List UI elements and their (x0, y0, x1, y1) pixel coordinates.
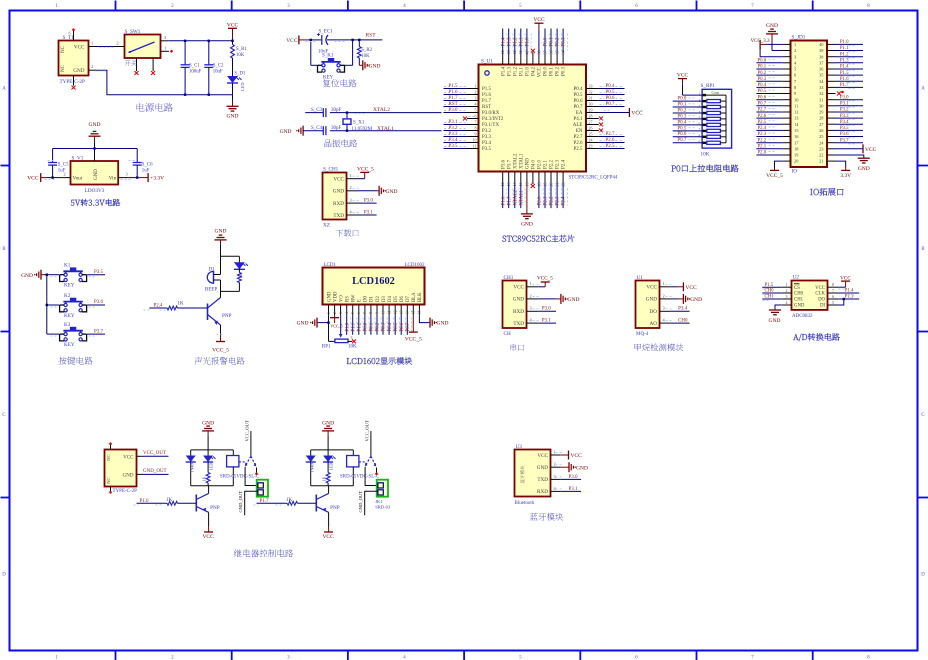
svg-text:P2.6: P2.6 (758, 114, 767, 119)
svg-text:P1.0: P1.0 (840, 40, 849, 45)
svg-text:1K: 1K (166, 498, 173, 503)
svg-text:10K: 10K (348, 345, 357, 350)
svg-text:P4.3/INT2: P4.3/INT2 (482, 117, 504, 122)
svg-text:P3.4: P3.4 (678, 307, 688, 312)
svg-text:P4.1: P4.1 (573, 117, 583, 122)
svg-text:P3.0: P3.0 (840, 95, 849, 100)
svg-text:P3.7: P3.7 (94, 329, 104, 334)
svg-text:C: C (2, 413, 5, 418)
svg-text:XTAL2: XTAL2 (373, 107, 390, 113)
svg-text:P0.3: P0.3 (758, 77, 767, 82)
svg-text:D5: D5 (394, 295, 399, 301)
svg-text:1N4007: 1N4007 (189, 460, 194, 473)
svg-text:S_K1: S_K1 (322, 54, 334, 59)
svg-text:GND: GND (280, 129, 292, 135)
svg-text:GND: GND (437, 321, 449, 327)
svg-text:GND: GND (690, 297, 702, 303)
svg-text:U2: U2 (793, 275, 800, 281)
svg-text:30: 30 (589, 101, 593, 106)
svg-text:P1.1: P1.1 (840, 46, 849, 51)
svg-text:8: 8 (699, 135, 701, 139)
svg-text:7: 7 (699, 129, 701, 133)
svg-text:GND: GND (215, 229, 227, 235)
svg-text:S_V1: S_V1 (72, 156, 84, 162)
svg-text:VCC_OUT: VCC_OUT (365, 420, 370, 441)
svg-text:3: 3 (287, 4, 290, 9)
svg-text:8: 8 (867, 4, 870, 9)
svg-text:LCD1: LCD1 (324, 263, 337, 268)
svg-text:XTAL1: XTAL1 (377, 126, 394, 132)
svg-text:P0.5: P0.5 (573, 93, 583, 98)
svg-text:VCC: VCC (646, 285, 657, 291)
svg-text:26: 26 (589, 125, 593, 130)
svg-text:P1.5: P1.5 (482, 87, 492, 92)
svg-text:P1.7: P1.7 (507, 196, 512, 206)
svg-text:12: 12 (794, 110, 798, 115)
svg-text:RW: RW (352, 294, 357, 302)
svg-text:1K: 1K (238, 273, 243, 278)
svg-text:2: 2 (117, 40, 119, 45)
svg-text:10K: 10K (361, 54, 370, 59)
svg-text:6: 6 (475, 113, 477, 118)
svg-text:P2.0: P2.0 (538, 160, 543, 170)
svg-text:3: 3 (351, 335, 353, 340)
svg-text:2: 2 (699, 99, 701, 103)
svg-text:2: 2 (350, 185, 352, 190)
svg-text:MQ-4: MQ-4 (636, 332, 649, 337)
svg-text:GND: GND (794, 304, 805, 309)
svg-text:VCC: VCC (685, 285, 697, 291)
svg-text:GND: GND (297, 321, 309, 327)
svg-text:5: 5 (475, 107, 477, 112)
svg-text:VCC: VCC (631, 111, 643, 117)
svg-text:GND: GND (386, 189, 398, 195)
svg-text:P2.5: P2.5 (573, 147, 583, 152)
svg-text:VCC: VCC (74, 45, 85, 51)
svg-text:EN: EN (576, 129, 583, 134)
svg-text:2: 2 (91, 64, 93, 69)
svg-text:2: 2 (171, 4, 174, 9)
svg-text:PNP: PNP (210, 505, 220, 511)
svg-text:U1: U1 (637, 275, 644, 281)
svg-text:7: 7 (363, 312, 367, 314)
svg-text:D3: D3 (382, 296, 387, 302)
svg-text:P2.3: P2.3 (556, 159, 561, 169)
svg-text:VCC: VCC (202, 534, 214, 540)
svg-text:GND_OUT: GND_OUT (358, 491, 363, 513)
svg-text:S_SW1: S_SW1 (125, 29, 141, 35)
svg-text:10: 10 (473, 137, 477, 142)
svg-text:VCC_5: VCC_5 (405, 336, 422, 342)
svg-text:3: 3 (475, 95, 477, 100)
svg-text:CH1: CH1 (504, 275, 514, 281)
svg-text:+3.3V: +3.3V (150, 176, 164, 182)
svg-text:S_C6: S_C6 (142, 163, 153, 168)
svg-text:P3.1: P3.1 (364, 210, 374, 215)
svg-text:P2.0: P2.0 (758, 151, 767, 156)
svg-text:S_R2: S_R2 (361, 48, 372, 53)
svg-text:P2.1: P2.1 (544, 196, 549, 206)
svg-text:10K: 10K (236, 53, 245, 58)
svg-text:P1.5: P1.5 (765, 283, 774, 288)
svg-text:1K: 1K (178, 302, 185, 307)
svg-text:3: 3 (530, 306, 532, 311)
svg-text:B: B (2, 247, 5, 252)
svg-text:VCC: VCC (27, 176, 39, 182)
svg-text:P1.2: P1.2 (358, 322, 363, 331)
svg-text:D7: D7 (406, 296, 411, 302)
svg-text:29: 29 (589, 107, 593, 112)
svg-text:GND: GND (646, 297, 657, 303)
svg-text:6: 6 (635, 4, 638, 9)
svg-text:P2.7: P2.7 (758, 108, 767, 113)
svg-text:RP1: RP1 (322, 345, 331, 350)
svg-text:Vout: Vout (73, 176, 83, 182)
svg-text:P1.2: P1.2 (840, 52, 849, 57)
svg-text:28: 28 (589, 113, 593, 118)
svg-text:3: 3 (699, 105, 701, 109)
svg-text:P0.4: P0.4 (573, 87, 583, 92)
svg-text:XTAL1: XTAL1 (519, 190, 524, 206)
svg-text:P1.5: P1.5 (449, 84, 459, 89)
svg-text:VCC_OUT: VCC_OUT (143, 451, 166, 456)
svg-text:P3.5: P3.5 (449, 144, 459, 149)
svg-text:S_U1: S_U1 (481, 59, 493, 65)
svg-text:P0.7: P0.7 (758, 102, 767, 107)
svg-text:1: 1 (794, 42, 796, 47)
svg-text:IO: IO (792, 169, 798, 175)
svg-text:3: 3 (164, 35, 166, 40)
svg-text:S_C4: S_C4 (311, 126, 323, 131)
svg-text:VCC_5: VCC_5 (212, 348, 229, 354)
svg-text:GND: GND (576, 465, 588, 471)
svg-text:P0.1: P0.1 (550, 37, 555, 47)
svg-text:2: 2 (171, 656, 174, 660)
svg-text:1: 1 (327, 312, 331, 314)
svg-text:VCC_5: VCC_5 (357, 167, 374, 173)
svg-text:P0.6: P0.6 (573, 99, 583, 104)
svg-text:2: 2 (333, 312, 337, 314)
svg-text:SRD-05VDC-SL-C: SRD-05VDC-SL-C (340, 474, 379, 479)
svg-text:12: 12 (393, 310, 397, 314)
svg-text:P2.2: P2.2 (550, 159, 555, 169)
svg-text:P2.1: P2.1 (758, 145, 767, 150)
svg-text:P1.4: P1.4 (840, 65, 849, 70)
svg-text:D1: D1 (209, 267, 216, 272)
svg-text:GND_OUT: GND_OUT (238, 491, 243, 513)
svg-text:3: 3 (554, 474, 556, 479)
svg-text:P0.2: P0.2 (556, 37, 561, 47)
svg-text:Vin: Vin (109, 176, 117, 182)
svg-text:P2.3: P2.3 (758, 132, 767, 137)
svg-text:VCC: VCC (227, 23, 239, 29)
svg-text:P1.6: P1.6 (501, 196, 506, 206)
svg-text:100uF: 100uF (189, 69, 202, 74)
svg-text:15: 15 (412, 310, 416, 314)
svg-text:P0.6: P0.6 (606, 96, 616, 101)
svg-text:C: C (921, 413, 924, 418)
svg-text:7: 7 (475, 119, 477, 124)
svg-text:3: 3 (350, 198, 352, 203)
svg-text:11: 11 (794, 103, 798, 108)
svg-text:CH0: CH0 (678, 319, 688, 324)
svg-text:D0: D0 (364, 295, 369, 301)
svg-text:BLK: BLK (418, 292, 423, 302)
svg-text:D1: D1 (370, 296, 375, 302)
svg-text:CH0: CH0 (794, 292, 804, 297)
svg-text:8: 8 (475, 125, 477, 130)
svg-text:S_CH1: S_CH1 (323, 167, 339, 173)
svg-text:P0.0: P0.0 (758, 59, 767, 64)
svg-text:P0.5: P0.5 (394, 322, 399, 331)
svg-text:P0.1: P0.1 (758, 65, 767, 70)
svg-text:CH1: CH1 (794, 298, 804, 303)
svg-text:LED: LED (240, 82, 245, 91)
svg-text:CH: CH (504, 331, 511, 337)
svg-text:VCC: VCC (123, 456, 134, 461)
svg-text:30pF: 30pF (331, 126, 342, 131)
svg-text:P3.7: P3.7 (840, 138, 849, 143)
svg-text:P0.2: P0.2 (376, 322, 381, 331)
svg-text:P3.1: P3.1 (542, 319, 552, 324)
svg-text:P1.1: P1.1 (519, 67, 524, 77)
svg-text:3: 3 (126, 172, 128, 177)
svg-text:P1.0: P1.0 (525, 37, 530, 47)
svg-text:6: 6 (832, 294, 834, 299)
svg-text:P4.2: P4.2 (532, 67, 537, 77)
svg-text:P1.7: P1.7 (449, 96, 459, 101)
svg-text:S_R1: S_R1 (236, 47, 247, 52)
svg-text:GND: GND (327, 291, 332, 302)
svg-text:P1.2: P1.2 (513, 66, 518, 76)
svg-text:RXD: RXD (537, 489, 548, 495)
svg-text:TXD: TXD (513, 321, 524, 327)
svg-text:RST: RST (366, 33, 377, 39)
svg-text:P0.7: P0.7 (573, 105, 583, 110)
svg-text:KEY: KEY (64, 342, 75, 348)
svg-text:25: 25 (589, 131, 593, 136)
svg-text:TYPE-C-2P: TYPE-C-2P (113, 489, 138, 494)
svg-text:U3: U3 (516, 444, 523, 450)
svg-text:NC: NC (106, 477, 111, 483)
svg-text:S_T1: S_T1 (63, 35, 75, 41)
svg-text:LED: LED (328, 463, 333, 471)
svg-text:P0.5: P0.5 (606, 90, 616, 95)
svg-text:P1.6: P1.6 (449, 90, 459, 95)
svg-text:VCC: VCC (533, 17, 545, 23)
svg-text:VCC: VCC (677, 73, 689, 79)
svg-text:GND: GND (766, 23, 778, 29)
svg-text:P3.5: P3.5 (840, 126, 849, 131)
svg-text:D2: D2 (376, 296, 381, 302)
svg-text:TYPE-C-2P: TYPE-C-2P (60, 79, 85, 85)
svg-text:D: D (2, 573, 6, 578)
svg-text:4: 4 (345, 312, 349, 314)
svg-text:P2.0: P2.0 (538, 196, 543, 206)
svg-text:ALE: ALE (573, 123, 583, 128)
svg-text:3: 3 (287, 656, 290, 660)
svg-text:P0.3: P0.3 (382, 322, 387, 331)
svg-text:33: 33 (589, 83, 593, 88)
svg-text:DO: DO (650, 309, 658, 315)
svg-text:4: 4 (663, 318, 666, 323)
svg-text:P2.7: P2.7 (606, 132, 616, 137)
svg-text:ADC0832: ADC0832 (792, 314, 813, 319)
svg-text:VDD: VDD (333, 291, 338, 302)
svg-text:P2.6: P2.6 (573, 141, 583, 146)
svg-text:NC: NC (106, 454, 111, 460)
svg-text:PNP: PNP (222, 313, 232, 319)
svg-text:24: 24 (589, 137, 593, 142)
svg-text:P0.0: P0.0 (544, 37, 549, 47)
svg-text:S_C1: S_C1 (189, 64, 200, 69)
svg-text:1: 1 (554, 449, 556, 454)
svg-text:P3.4: P3.4 (840, 120, 849, 125)
svg-text:2: 2 (663, 293, 665, 298)
svg-text:GND: GND (21, 273, 33, 279)
svg-text:P1.7: P1.7 (482, 99, 492, 104)
svg-text:2: 2 (786, 288, 788, 293)
svg-text:P2.4: P2.4 (562, 159, 567, 169)
svg-text:GND: GND (369, 63, 381, 69)
svg-text:VCC_5: VCC_5 (537, 276, 553, 282)
svg-text:P3.6: P3.6 (501, 159, 506, 169)
svg-text:P3.1: P3.1 (569, 487, 579, 492)
svg-text:P2.4: P2.4 (758, 126, 767, 131)
svg-text:1K: 1K (201, 477, 206, 482)
svg-text:LCD1602: LCD1602 (352, 276, 395, 287)
svg-text:P0.0: P0.0 (677, 97, 687, 102)
svg-text:2: 2 (64, 172, 66, 177)
svg-text:LDO3V3: LDO3V3 (85, 188, 105, 194)
svg-text:P2.2: P2.2 (758, 138, 767, 143)
svg-text:P0.4: P0.4 (677, 120, 687, 125)
svg-text:KEY: KEY (64, 313, 75, 319)
svg-text:D: D (921, 573, 925, 578)
svg-text:1: 1 (530, 281, 532, 286)
svg-text:4: 4 (786, 300, 788, 305)
svg-text:K1: K1 (64, 263, 71, 269)
svg-text:10: 10 (381, 310, 385, 314)
svg-text:7: 7 (751, 4, 754, 9)
svg-text:CS: CS (794, 286, 800, 291)
svg-text:P1.3: P1.3 (507, 37, 512, 47)
svg-text:S_JD1: S_JD1 (792, 35, 806, 41)
svg-text:P3.1/TX: P3.1/TX (482, 123, 499, 128)
svg-text:5: 5 (699, 117, 701, 121)
svg-text:P2.5: P2.5 (758, 120, 767, 125)
svg-text:CH1: CH1 (765, 295, 775, 300)
svg-text:GND: GND (858, 166, 870, 172)
svg-text:P3.1: P3.1 (449, 120, 459, 125)
svg-text:1: 1 (55, 4, 58, 9)
svg-text:P1.4: P1.4 (501, 67, 506, 77)
svg-text:GND: GND (769, 318, 781, 324)
svg-text:P3.0: P3.0 (449, 108, 459, 113)
svg-text:7: 7 (751, 656, 754, 660)
svg-text:P1.5: P1.5 (840, 71, 849, 76)
svg-text:8: 8 (832, 282, 834, 287)
svg-text:10K: 10K (701, 152, 710, 158)
svg-text:P3.2: P3.2 (482, 129, 492, 134)
svg-text:P0.0: P0.0 (544, 66, 549, 76)
svg-text:P3.1: P3.1 (840, 102, 849, 107)
svg-text:P1.6: P1.6 (840, 77, 849, 82)
svg-text:GND: GND (123, 474, 134, 479)
svg-text:Bluetooth: Bluetooth (515, 501, 535, 506)
svg-text:P1.4: P1.4 (501, 37, 506, 47)
svg-text:DI: DI (820, 304, 825, 309)
svg-text:P3.2: P3.2 (449, 126, 459, 131)
svg-text:3.3V: 3.3V (840, 173, 851, 179)
svg-text:EA: EA (576, 111, 583, 116)
svg-text:1: 1 (475, 83, 477, 88)
svg-text:S_RP1: S_RP1 (701, 83, 716, 89)
svg-text:23: 23 (589, 143, 593, 148)
svg-text:21: 21 (819, 159, 823, 164)
svg-text:6: 6 (699, 123, 701, 127)
svg-text:9: 9 (375, 312, 379, 314)
svg-text:4: 4 (475, 101, 477, 106)
svg-text:P0.4: P0.4 (758, 83, 767, 88)
svg-text:Com: Com (712, 90, 721, 95)
svg-text:P1.4: P1.4 (845, 289, 854, 294)
svg-text:27: 27 (589, 119, 593, 124)
svg-text:DO: DO (818, 298, 825, 303)
svg-text:P3.3: P3.3 (482, 135, 492, 140)
svg-text:RXD: RXD (513, 309, 524, 315)
svg-text:2: 2 (794, 48, 796, 53)
svg-text:GND: GND (94, 169, 99, 180)
svg-text:P3.4: P3.4 (482, 141, 492, 146)
svg-text:13: 13 (400, 310, 404, 314)
svg-text:P2.3: P2.3 (556, 196, 561, 206)
svg-text:P3.6: P3.6 (94, 300, 104, 305)
svg-text:VCC: VCC (865, 147, 877, 153)
svg-text:P0.6: P0.6 (758, 95, 767, 100)
svg-text:RST: RST (482, 105, 491, 110)
svg-text:GND: GND (227, 114, 239, 120)
svg-text:XTAL2: XTAL2 (513, 153, 518, 169)
svg-text:P3.5: P3.5 (482, 147, 492, 152)
svg-text:4: 4 (554, 486, 557, 491)
svg-text:STC89C52RC_LQFP44: STC89C52RC_LQFP44 (569, 175, 618, 180)
svg-text:P3.0: P3.0 (542, 307, 552, 312)
svg-text:SRD-05VDC-SL-C: SRD-05VDC-SL-C (220, 474, 259, 479)
svg-text:16: 16 (418, 310, 422, 314)
svg-text:10uF: 10uF (213, 69, 223, 74)
svg-text:XTAL2: XTAL2 (513, 190, 518, 206)
svg-text:P0.5: P0.5 (758, 89, 767, 94)
svg-text:1K: 1K (321, 477, 326, 482)
svg-text:6: 6 (635, 656, 638, 660)
svg-text:NC: NC (61, 64, 66, 72)
svg-text:KEY: KEY (64, 283, 75, 289)
svg-text:P1.3: P1.3 (507, 67, 512, 77)
svg-text:VCC: VCC (815, 286, 825, 291)
svg-text:P2.6: P2.6 (606, 138, 616, 143)
svg-text:BEEP: BEEP (205, 288, 217, 293)
svg-text:32: 32 (589, 89, 593, 94)
svg-text:11: 11 (387, 310, 391, 314)
svg-text:P2.2: P2.2 (550, 196, 555, 206)
svg-text:P0.2: P0.2 (677, 108, 687, 113)
svg-text:P3.4: P3.4 (449, 138, 459, 143)
svg-text:AO: AO (650, 321, 658, 327)
svg-text:VCC_OUT: VCC_OUT (245, 420, 250, 441)
svg-text:S_C5: S_C5 (58, 163, 69, 168)
svg-text:RS: RS (345, 296, 350, 302)
